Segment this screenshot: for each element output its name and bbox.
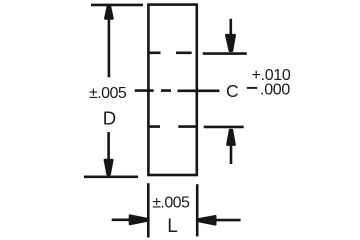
dimension D top extension line <box>91 4 143 7</box>
svg-text:C: C <box>226 81 239 101</box>
dimension C top arrowhead <box>226 35 235 51</box>
termination band upper dashed line <box>149 51 192 54</box>
svg-text:±.005: ±.005 <box>89 85 127 102</box>
dimension C bottom extension line <box>204 126 244 129</box>
label C tolerance minus sign <box>247 87 257 89</box>
svg-text:D: D <box>103 107 116 128</box>
dimension D top arrowhead <box>105 6 113 18</box>
dimension L left arrow shaft <box>112 219 130 222</box>
dimension D bottom arrowhead <box>105 160 113 175</box>
dimension D top arrow shaft <box>108 19 111 78</box>
dimension L left arrowhead <box>130 216 147 225</box>
dimension C top arrow shaft <box>230 19 233 35</box>
dimension L right arrowhead <box>199 216 215 224</box>
dimension L right arrow shaft <box>216 219 241 222</box>
chip body outline <box>148 5 196 175</box>
termination band lower dashed line <box>149 125 197 128</box>
dimension C bottom arrowhead <box>227 130 235 145</box>
dimension L left extension line <box>147 183 150 237</box>
svg-text:L: L <box>167 216 178 237</box>
svg-text:.000: .000 <box>260 81 290 98</box>
dimension L right extension line <box>196 184 199 236</box>
svg-text:±.005: ±.005 <box>152 195 190 212</box>
dimension D bottom extension line <box>84 176 138 179</box>
dimension C top extension line <box>203 52 247 55</box>
dimension D bottom arrow shaft <box>107 132 110 160</box>
center dashed line with C leader <box>135 89 220 92</box>
dimension C bottom arrow shaft <box>230 145 233 164</box>
